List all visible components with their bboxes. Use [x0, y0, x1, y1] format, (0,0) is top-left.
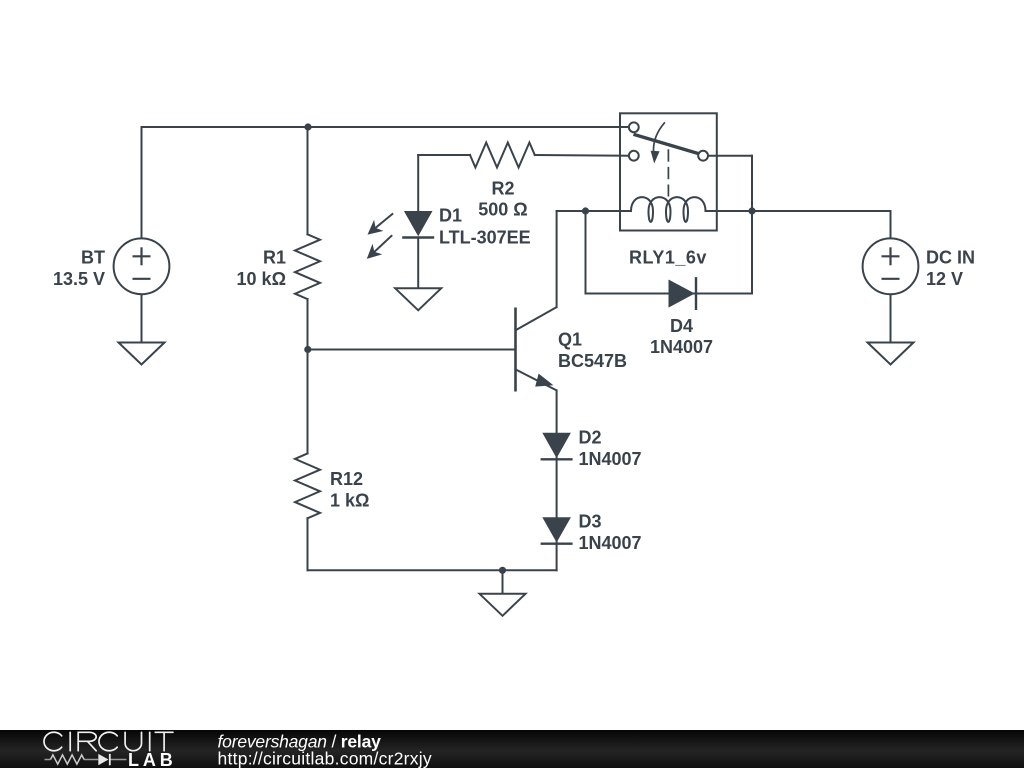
svg-text:BC547B: BC547B [558, 351, 627, 371]
svg-text:1N4007: 1N4007 [579, 533, 642, 553]
svg-text:LTL-307EE: LTL-307EE [439, 228, 531, 248]
svg-text:BT: BT [81, 247, 105, 267]
svg-text:R2: R2 [491, 178, 514, 198]
svg-text:12 V: 12 V [926, 269, 963, 289]
svg-text:1N4007: 1N4007 [650, 337, 713, 357]
svg-text:D2: D2 [579, 427, 602, 447]
svg-text:D1: D1 [439, 206, 462, 226]
svg-text:1 kΩ: 1 kΩ [330, 491, 369, 511]
svg-text:10 kΩ: 10 kΩ [237, 269, 286, 289]
svg-text:http://circuitlab.com/cr2rxjy: http://circuitlab.com/cr2rxjy [218, 748, 432, 768]
svg-text:D3: D3 [579, 512, 602, 532]
svg-text:1N4007: 1N4007 [579, 449, 642, 469]
svg-text:R12: R12 [330, 469, 363, 489]
svg-text:DC IN: DC IN [926, 247, 975, 267]
svg-text:D4: D4 [670, 316, 693, 336]
svg-text:500 Ω: 500 Ω [478, 200, 527, 220]
svg-text:LAB: LAB [128, 750, 177, 768]
svg-text:13.5 V: 13.5 V [53, 269, 105, 289]
svg-text:RLY1_6v: RLY1_6v [629, 248, 707, 268]
svg-text:R1: R1 [263, 247, 286, 267]
svg-text:Q1: Q1 [558, 329, 582, 349]
